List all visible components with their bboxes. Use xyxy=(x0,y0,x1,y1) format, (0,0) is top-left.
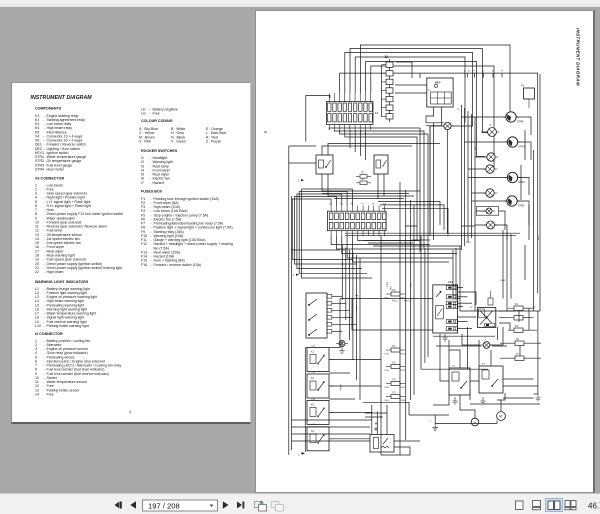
fuse symbol F1 y348 xyxy=(391,348,400,352)
wire fuse nest 1 xyxy=(292,199,352,259)
wire mid drop 1 xyxy=(341,245,343,300)
wire mid bundle 2 xyxy=(464,108,466,246)
svg-text:KEY: KEY xyxy=(435,81,441,85)
wire top bus 4 xyxy=(355,57,465,123)
relay K3 xyxy=(316,155,333,174)
gauge STR3 xyxy=(507,196,517,206)
svg-text:F2: F2 xyxy=(521,84,525,88)
switch DE1 xyxy=(433,285,458,333)
fuse symbol F2 y364 xyxy=(391,365,400,369)
motor M1 xyxy=(497,412,506,421)
wire top bus 3 xyxy=(345,53,473,127)
svg-text:PHL4: PHL4 xyxy=(385,354,390,356)
gauge STR1 xyxy=(507,137,517,147)
wire mid bundle 5 xyxy=(474,117,476,311)
wire bus y233 xyxy=(345,232,520,234)
wire DE2 out 4 xyxy=(332,316,353,318)
svg-text:15: 15 xyxy=(457,109,460,111)
svg-text:INSTRUMENT DIAGRAM: INSTRUMENT DIAGRAM xyxy=(576,28,581,86)
wire long vertical x405 xyxy=(405,190,407,440)
lamp L7 xyxy=(487,221,495,229)
wire DE1 out 6 xyxy=(457,328,472,330)
gauge STR4 xyxy=(506,112,516,122)
wire X4 fan 4 xyxy=(345,130,417,226)
relay bottom 4 xyxy=(307,427,334,451)
fuse symbol F3 y394 xyxy=(391,395,400,399)
wire fuse bus vertical 1 xyxy=(380,235,382,455)
fuse symbol right 2 xyxy=(514,328,523,333)
wire DE1 out 3 xyxy=(457,302,472,304)
wire bus y236 xyxy=(345,235,516,237)
fuse symbol right extra xyxy=(514,316,523,321)
wire bottom right verticals xyxy=(449,340,538,418)
wire long mid bus xyxy=(460,310,540,312)
svg-text:STR4: STR4 xyxy=(517,119,524,123)
wire fuse nest 4 xyxy=(299,192,367,274)
svg-text:STR2: STR2 xyxy=(518,180,525,184)
svg-text:197 / 208: 197 / 208 xyxy=(148,501,180,510)
wire pin stub 1 xyxy=(464,73,466,77)
svg-text:PHL4: PHL4 xyxy=(385,298,390,300)
ground right bottom xyxy=(535,394,541,401)
svg-text:PHL4: PHL4 xyxy=(385,387,390,389)
wire X4 fan 2 xyxy=(334,130,424,236)
wire gauge column links xyxy=(430,117,531,240)
gauge STR2 xyxy=(507,172,517,182)
relay bottom 3 xyxy=(307,400,334,424)
svg-text:PHL4: PHL4 xyxy=(466,242,471,244)
wire bus y298 xyxy=(340,298,460,300)
svg-text:S: S xyxy=(483,71,485,73)
svg-text:F1: F1 xyxy=(393,344,397,348)
wire X4 drop 1 xyxy=(349,130,351,148)
first page button xyxy=(115,502,122,509)
wire fuse nest 3 xyxy=(297,194,362,269)
wire fuse out 4 xyxy=(347,236,453,258)
svg-text:1: 1 xyxy=(298,179,300,183)
wire top bus 7 xyxy=(340,73,538,293)
wire strip top right nest xyxy=(378,202,448,236)
lamp beacon xyxy=(339,341,345,347)
wire right bus 3 xyxy=(537,311,539,394)
wire pin stub 3 xyxy=(474,73,476,77)
svg-text:F6: F6 xyxy=(516,338,519,341)
svg-text:STR1: STR1 xyxy=(518,144,525,148)
wire DE1 out 4 xyxy=(457,306,463,308)
ground under beacon xyxy=(339,347,345,354)
svg-text:PHL4: PHL4 xyxy=(392,301,398,303)
wire K3 down xyxy=(322,174,328,196)
left page (text page) xyxy=(11,82,251,424)
lamp hazard C xyxy=(483,342,490,349)
switch panel DE2 xyxy=(306,293,332,338)
motor M2 xyxy=(471,418,479,426)
right page (wiring diagram) xyxy=(255,10,595,494)
svg-text:RN4: RN4 xyxy=(341,250,345,252)
svg-text:F4: F4 xyxy=(515,303,518,306)
fuse symbol F2 y292 xyxy=(391,292,400,296)
wire over fuse 1 xyxy=(322,190,420,192)
svg-text:K3: K3 xyxy=(482,364,485,366)
svg-text:PHL4: PHL4 xyxy=(401,354,406,356)
wire bottom harness xyxy=(292,226,542,441)
wire fuse out 3 xyxy=(342,236,457,254)
wire top bus 1 xyxy=(360,45,510,112)
lamp charge xyxy=(444,122,451,129)
wire mid drop 5 xyxy=(355,255,357,380)
continuous page layout icon xyxy=(533,501,541,510)
wire mid bundle 3 xyxy=(467,111,469,242)
wire K4 down xyxy=(378,174,384,199)
wire relay col left xyxy=(304,348,306,452)
wire X4 fan 1 xyxy=(329,128,420,233)
svg-text:PHL4: PHL4 xyxy=(404,301,410,303)
svg-text:F30A: F30A xyxy=(500,279,505,282)
fuse inline F6 xyxy=(360,181,367,185)
two page continuous layout icon xyxy=(565,501,576,510)
wire top bus 5 xyxy=(366,62,485,157)
fuse box strip xyxy=(327,206,386,237)
relay K6 xyxy=(449,368,470,395)
wire bottom extra xyxy=(305,299,449,456)
wire DE2 out 2 xyxy=(332,302,346,304)
relay bottom 1 xyxy=(307,348,334,372)
svg-text:PHL4: PHL4 xyxy=(401,370,406,372)
node arrow 1a xyxy=(301,179,304,181)
wire KEY out 1 xyxy=(426,107,444,123)
wire fuse out 2 xyxy=(336,236,461,249)
wire long vertical x400 xyxy=(399,182,401,455)
svg-text:1: 1 xyxy=(298,453,300,457)
svg-text:5: 5 xyxy=(263,131,268,134)
svg-text:L4: L4 xyxy=(470,307,473,309)
relay K4 xyxy=(374,155,388,174)
wire DE1 out 1 xyxy=(457,287,463,289)
wire pin stub 2 xyxy=(467,73,469,77)
svg-text:PHL4: PHL4 xyxy=(401,400,406,402)
wire mid bundle 1 xyxy=(461,105,463,250)
svg-text:RN: RN xyxy=(475,146,477,150)
svg-text:F7: F7 xyxy=(516,353,519,356)
svg-text:F9: F9 xyxy=(372,203,375,205)
last page button xyxy=(237,502,244,509)
wire K3 left xyxy=(289,162,316,164)
wire pin stub 4 xyxy=(482,73,484,77)
wire mid bundle 4 xyxy=(471,114,473,238)
top light strip xyxy=(0,0,600,7)
fuse inline F2 xyxy=(360,175,367,179)
wire DE2 out 3 xyxy=(332,309,350,311)
wire right bus 2 xyxy=(539,74,541,311)
svg-text:C: C xyxy=(485,337,487,341)
wire over fuse 3 xyxy=(328,195,414,197)
wire DE2 out 5 xyxy=(332,323,357,325)
svg-text:P: P xyxy=(501,71,503,73)
wire pin stub 6 xyxy=(501,73,503,77)
fuse symbol right 4 xyxy=(515,356,524,361)
svg-text:PHL4: PHL4 xyxy=(401,387,406,389)
wire X4 fan 3 xyxy=(340,130,428,240)
node arrow 1b xyxy=(296,274,299,276)
lamp L3 xyxy=(487,153,495,161)
svg-text:PHL4: PHL4 xyxy=(340,384,342,390)
wire left margin bus 2 xyxy=(291,196,293,450)
svg-text:X4: X4 xyxy=(375,111,379,115)
wire fuse nest 5 xyxy=(302,189,372,278)
svg-text:P: P xyxy=(474,71,476,73)
wire above cross xyxy=(462,230,534,345)
wire KEY out 2 xyxy=(426,107,441,126)
bottom toolbar xyxy=(0,493,600,514)
fuse symbol F3 y381 xyxy=(391,382,400,386)
svg-text:STR3: STR3 xyxy=(518,203,525,207)
svg-text:PHL4: PHL4 xyxy=(385,400,390,402)
fuse symbol right 3 xyxy=(515,341,524,346)
wire fuse bus vertical 2 xyxy=(410,200,412,400)
wire KEY out 3 xyxy=(446,129,448,233)
flasher unit xyxy=(524,88,535,99)
wire DE1 out 2 xyxy=(457,296,467,298)
node arrow bottom left xyxy=(302,452,306,455)
wire DE1 out 5 xyxy=(457,321,467,323)
wire fuse out 6 xyxy=(358,236,420,241)
wire mid h 2 xyxy=(368,242,413,244)
wire under DE1 xyxy=(433,335,495,337)
svg-text:F2: F2 xyxy=(393,361,397,365)
lamp above cross relay xyxy=(488,298,493,305)
lamp L2 xyxy=(488,128,497,137)
page number box xyxy=(143,500,218,511)
wire X4 drop 2 xyxy=(354,130,356,152)
wire X4 drop 3 xyxy=(359,130,361,156)
svg-text:F3: F3 xyxy=(393,391,397,395)
svg-text:PHL4: PHL4 xyxy=(385,370,390,372)
svg-text:F8: F8 xyxy=(533,307,536,309)
ground under DE1 xyxy=(442,334,448,341)
lamp L5 xyxy=(486,189,494,197)
wire X4 drop 4 xyxy=(365,130,367,160)
ground K6 xyxy=(452,397,458,404)
svg-text:K4: K4 xyxy=(452,366,455,368)
wire right area links xyxy=(417,130,540,404)
relay K7 xyxy=(479,366,503,393)
wire DE2 out 1 xyxy=(332,295,343,297)
wire fuse nest 2 xyxy=(295,197,357,265)
wire K3 K4 top links xyxy=(322,62,440,155)
svg-text:F3: F3 xyxy=(393,378,397,382)
previous view icon xyxy=(255,501,267,512)
svg-text:M: M xyxy=(499,415,502,419)
wire mid drop 2 xyxy=(345,248,347,321)
wire fuse out 5 xyxy=(352,236,449,262)
next view icon (disabled) xyxy=(272,502,284,512)
wire fuse bus vertical 3 xyxy=(413,205,415,395)
intermittence unit K5 xyxy=(370,416,394,452)
wire mid h 1 xyxy=(363,240,417,242)
wire over fuse 4 xyxy=(334,198,404,200)
wire mid h 3 xyxy=(373,245,461,247)
wire right bus 1 xyxy=(533,150,535,311)
wire intermittence ladder xyxy=(363,402,409,434)
lamp L4 xyxy=(486,165,494,173)
svg-text:F7: F7 xyxy=(361,203,364,205)
wire mid drop 3 xyxy=(348,250,350,340)
fuse symbol right 1 xyxy=(514,306,523,311)
previous page button xyxy=(130,501,136,508)
ground mid bottom xyxy=(432,423,438,430)
svg-text:1: 1 xyxy=(430,421,432,423)
wire KEY out 4 xyxy=(430,123,434,240)
wire fuse out 1 xyxy=(331,236,430,245)
wire mid drop 4 xyxy=(352,253,354,361)
svg-text:D: D xyxy=(464,71,466,73)
svg-text:C: C xyxy=(490,123,492,127)
connector X4 xyxy=(327,93,374,130)
wire top bus 2 xyxy=(350,49,488,133)
svg-text:F5: F5 xyxy=(515,325,518,328)
wire left margin bus xyxy=(289,146,316,455)
wire mid drop 6 xyxy=(359,258,361,401)
wire pin stub 5 xyxy=(492,73,494,77)
wire over fuse 2 xyxy=(322,193,409,195)
terminal chain 12 xyxy=(382,59,394,122)
svg-text:PHL: PHL xyxy=(355,296,359,298)
wire band 330-370 xyxy=(421,236,507,369)
two page layout icon (selected) xyxy=(546,499,563,512)
svg-text:B: B xyxy=(468,71,470,73)
svg-text:F302: F302 xyxy=(387,281,389,287)
svg-text:PHL4: PHL4 xyxy=(401,298,406,300)
relay bottom 2 xyxy=(307,374,334,398)
next page button xyxy=(223,501,229,508)
relay with contacts U2 xyxy=(477,308,495,328)
svg-text:F2: F2 xyxy=(393,288,397,292)
ground K7 xyxy=(480,397,486,404)
wire DE2 out 6 xyxy=(332,330,343,332)
ignition switch KEY1 xyxy=(427,78,453,107)
lamp L6 xyxy=(486,208,492,214)
box around lamp L6 xyxy=(476,207,498,216)
svg-text:46.7: 46.7 xyxy=(588,502,600,511)
svg-text:12: 12 xyxy=(385,55,389,59)
single page layout icon xyxy=(516,501,524,510)
svg-text:1: 1 xyxy=(293,273,295,277)
wire top bus 6 xyxy=(371,66,494,169)
right column xyxy=(141,108,178,116)
wire X4 pin1 to left xyxy=(306,96,330,142)
